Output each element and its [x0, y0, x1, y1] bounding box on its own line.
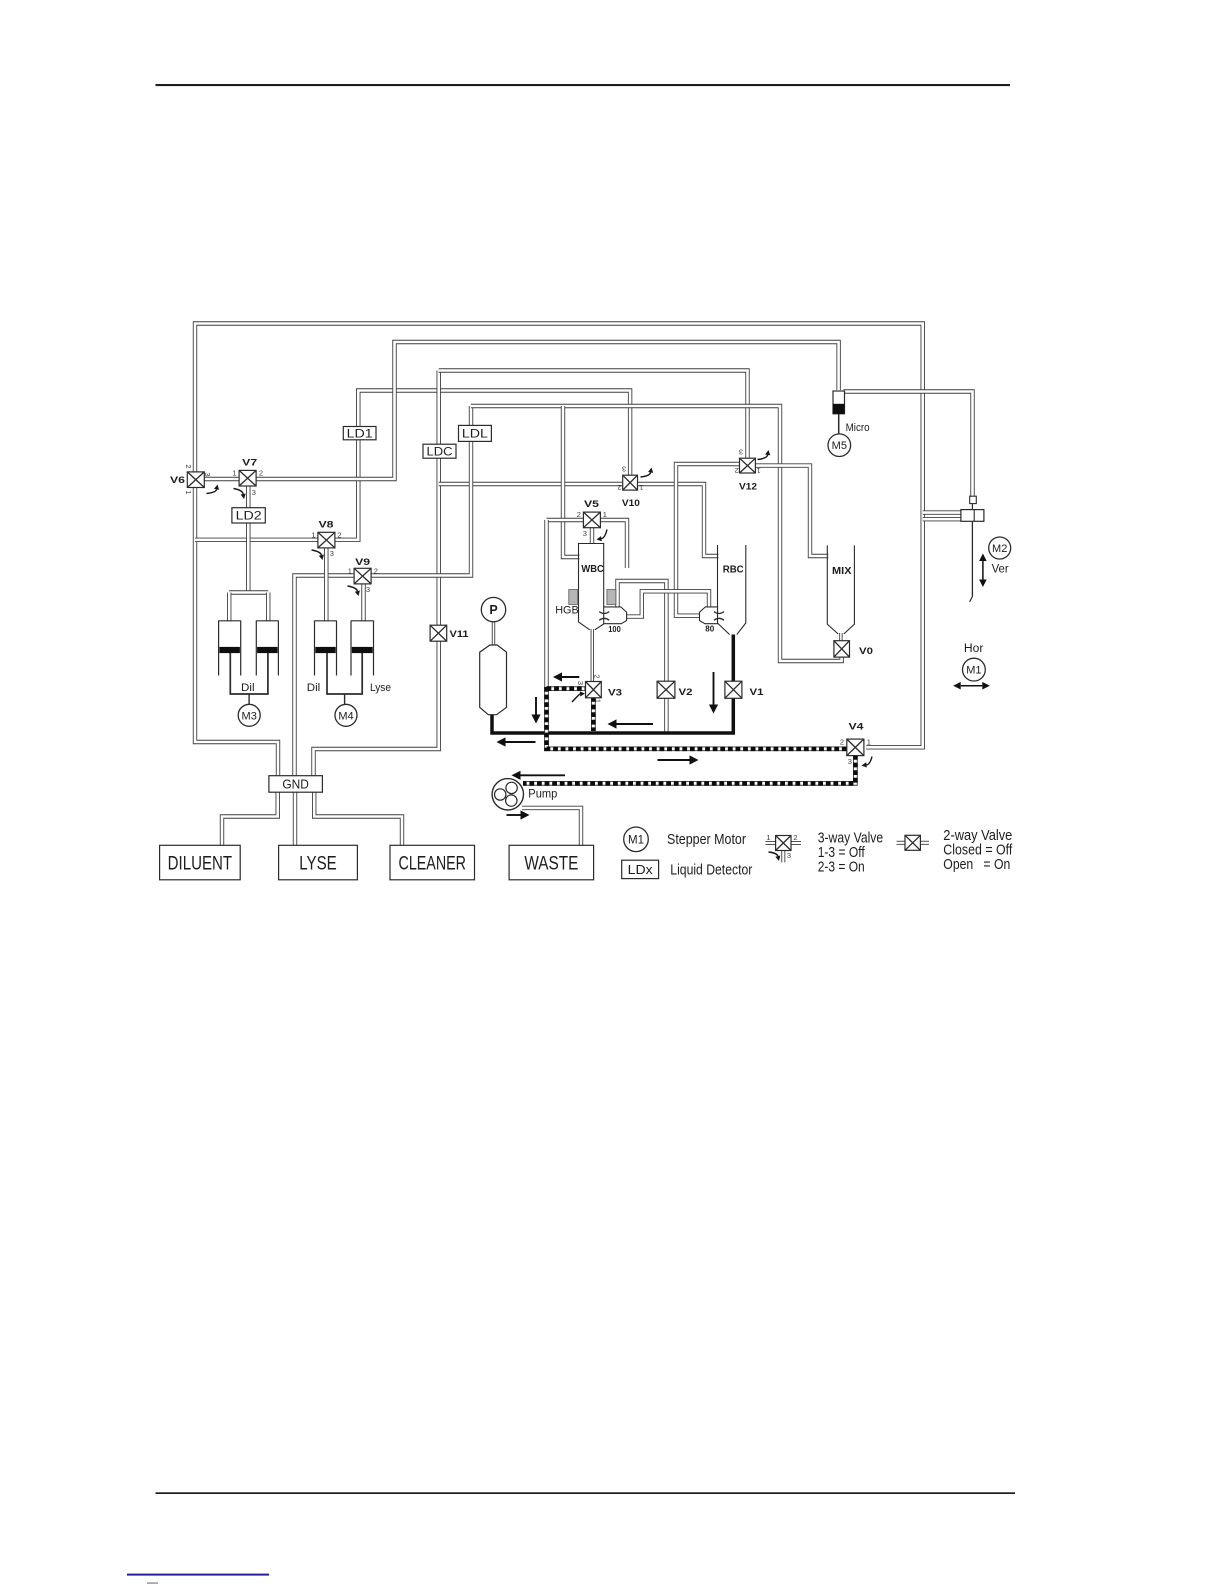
svg-text:DILUENT: DILUENT: [168, 853, 233, 874]
svg-text:Hor: Hor: [964, 643, 984, 655]
svg-text:3: 3: [622, 465, 626, 474]
wire LDL line x471 from y406 down to V9 pin2: [371, 406, 471, 576]
valve V7: [239, 470, 256, 486]
wire rinse block feed lower: [923, 517, 962, 521]
svg-text:1: 1: [639, 483, 643, 492]
MIX chamber: [827, 545, 838, 634]
M3 piston rod left: [229, 653, 231, 694]
svg-text:RBC: RBC: [723, 564, 744, 576]
valve V1 (2-way): [725, 681, 742, 698]
svg-text:1: 1: [348, 566, 352, 575]
svg-text:Dil: Dil: [241, 682, 255, 694]
svg-text:V12: V12: [739, 481, 757, 492]
syringe M4 right cylinder (Lyse): [351, 620, 374, 622]
legend 3-way valve symbol: [766, 841, 777, 845]
V8 actuator arrow: [312, 550, 322, 555]
flow arrow down near V1: [713, 672, 715, 705]
svg-text:V5: V5: [584, 499, 600, 510]
svg-text:3: 3: [203, 472, 212, 476]
svg-text:Open = On: Open = On: [943, 857, 1010, 873]
valve V11 (2-way): [430, 625, 447, 641]
svg-text:2: 2: [840, 738, 844, 747]
page top rule: [156, 84, 1011, 86]
wire V9 pin1 left, down x294.5 to GND: [295, 576, 355, 778]
bottle CLEANER: [390, 845, 475, 880]
svg-text:LDC: LDC: [427, 446, 453, 458]
dashed line x546.5 down and right to V4 pin2: [547, 687, 848, 749]
liquid detector LDL: [459, 425, 492, 441]
V5 actuator arrow: [601, 530, 607, 539]
svg-text:3: 3: [739, 448, 743, 457]
svg-text:80: 80: [705, 624, 714, 634]
svg-text:Micro: Micro: [846, 422, 870, 434]
svg-text:V11: V11: [450, 629, 470, 640]
wire branch x438.7 to V10 pin2: [439, 482, 624, 486]
svg-text:2: 2: [735, 466, 739, 475]
valve V0 (2-way): [834, 641, 850, 657]
svg-text:HGB: HGB: [555, 605, 579, 617]
wire V6 branch to V8 pin1: [195, 538, 319, 542]
V4 actuator arrow: [867, 757, 873, 765]
wire V5 pin2 left to x546.5 corner: [547, 518, 585, 522]
peristaltic pump: [492, 779, 523, 810]
footnote blue rule: [127, 1574, 269, 1576]
liquid detector LD2: [232, 508, 265, 523]
svg-text:M4: M4: [338, 710, 353, 722]
svg-text:3: 3: [583, 529, 587, 538]
svg-text:Liquid Detector: Liquid Detector: [670, 863, 752, 879]
aperture 80 assembly (RBC): [700, 607, 718, 624]
svg-text:1: 1: [232, 468, 236, 477]
svg-text:2: 2: [593, 674, 602, 678]
flow arrow left above pump: [521, 774, 566, 776]
HGB sensor left: [569, 590, 578, 605]
svg-text:3: 3: [848, 757, 852, 766]
svg-text:1: 1: [867, 738, 871, 747]
motor M1 (horizontal drive): [963, 658, 986, 681]
svg-text:M1: M1: [966, 665, 981, 677]
legend LDx box: [622, 860, 659, 878]
wire y406 header to x780 down to V0 bottom: [471, 406, 842, 661]
svg-text:GND: GND: [282, 777, 309, 792]
svg-text:2: 2: [259, 468, 263, 477]
svg-text:M3: M3: [242, 710, 257, 722]
svg-text:Stepper Motor: Stepper Motor: [667, 832, 746, 848]
bottle WASTE: [509, 845, 593, 880]
liquid detector LD1: [343, 427, 376, 440]
svg-text:LD2: LD2: [236, 510, 262, 522]
bottle LYSE: [279, 845, 358, 880]
thick waste line RBC funnel to V1: [732, 635, 736, 683]
svg-text:M5: M5: [832, 440, 847, 452]
legend motor symbol M1: [624, 827, 649, 852]
svg-text:M2: M2: [992, 543, 1007, 555]
svg-text:1: 1: [184, 490, 193, 494]
wire x546.5 down toward V3 dashed tee: [544, 520, 548, 687]
motor M2: [989, 537, 1011, 559]
M4 yoke and stem: [326, 693, 363, 695]
svg-text:LDx: LDx: [628, 862, 654, 877]
svg-text:V4: V4: [849, 722, 865, 733]
svg-text:V9: V9: [355, 557, 370, 568]
syringe M3 right cylinder: [256, 620, 278, 622]
node GND manifold: [269, 776, 323, 793]
svg-text:3: 3: [252, 488, 256, 497]
svg-text:V6: V6: [170, 475, 185, 486]
aperture 100 assembly (WBC): [604, 607, 627, 624]
valve V9: [354, 568, 371, 584]
svg-text:2-3 = On: 2-3 = On: [818, 859, 865, 875]
probe rinse block: [961, 510, 984, 522]
wire V2 bottom to waste header: [664, 698, 668, 733]
pressure chamber: [480, 645, 507, 715]
svg-text:WBC: WBC: [581, 563, 604, 575]
svg-text:V2: V2: [679, 687, 693, 698]
syringe M3 left cylinder (Dil): [219, 620, 241, 622]
flow arrow left above V3: [562, 676, 579, 678]
wire V6 pin3 to V7 pin1: [204, 477, 240, 481]
wire pump outlet to WASTE: [522, 808, 581, 846]
legend 2-way valve symbol: [897, 841, 907, 845]
V3 actuator arrow: [572, 694, 580, 702]
Micro rod: [838, 414, 840, 435]
wire V6 pin1 down / frame bottom-left to GND: [195, 485, 278, 777]
wire outer frame V6-to-V4 (top y323.5, right x922.7): [195, 324, 923, 748]
wire M3 manifold left drop: [227, 593, 231, 622]
dashed V3 bottom to waste header: [591, 697, 596, 731]
Ver arrow: [982, 561, 984, 580]
flow arrow right below pump: [507, 814, 521, 816]
svg-text:LD1: LD1: [347, 428, 373, 440]
wire V12 pin2 left, down x676 to RBC aperture: [676, 464, 741, 616]
svg-text:Ver: Ver: [992, 563, 1009, 575]
svg-text:V8: V8: [319, 519, 334, 530]
svg-text:100: 100: [608, 624, 621, 634]
wire GND to CLEANER: [314, 792, 402, 847]
svg-text:MIX: MIX: [832, 565, 852, 577]
wire WBC funnel to V3 pin2: [591, 629, 594, 683]
wire M3 manifold header: [229, 590, 268, 594]
Hor arrow: [961, 685, 983, 687]
WBC chamber: [579, 543, 604, 545]
RBC chamber: [718, 545, 730, 635]
V7 actuator arrow: [234, 489, 244, 495]
M4 piston rod left: [326, 653, 328, 694]
wire LDC line down (x438.7) through V11 to GND: [437, 371, 441, 627]
probe coupler square: [970, 496, 977, 503]
wire V7 pin3 down through LD2 to M3 manifold: [246, 486, 250, 593]
M3 yoke and stem: [230, 693, 269, 695]
HGB sensor right: [607, 590, 616, 605]
thick waste header V1 to P chamber: [492, 698, 733, 734]
wire rinse block feed upper: [923, 510, 962, 514]
wire y370.5 header LDC-corner to V12 pin3: [439, 371, 748, 460]
motor M4: [335, 704, 357, 726]
wire V12 pin1 right, down x810 to MIX inlet: [755, 466, 829, 556]
wire x563 branch down to WBC side inlet: [563, 406, 580, 557]
svg-text:WASTE: WASTE: [524, 853, 578, 874]
legend 3-way actuator arrow: [769, 852, 778, 856]
valve V4: [847, 739, 864, 756]
wire Micro piston right to probe: [844, 392, 973, 498]
wire WBC aperture out to RBC aperture top: [627, 591, 710, 616]
svg-text:M1: M1: [628, 834, 644, 846]
svg-text:CLEANER: CLEANER: [399, 853, 467, 874]
svg-text:V7: V7: [242, 458, 257, 469]
bottle DILUENT: [160, 845, 241, 880]
svg-text:P: P: [489, 603, 497, 617]
Micro metering piston: [833, 391, 845, 414]
svg-text:1: 1: [603, 510, 607, 519]
flow arrow down left of dashed: [535, 697, 537, 715]
wire GND to LYSE: [293, 792, 297, 847]
motor M5: [828, 434, 851, 457]
sample needle: [971, 504, 973, 510]
svg-text:Dil: Dil: [307, 682, 321, 694]
wire V9 pin3 down to M4 Lyse syringe: [361, 583, 365, 622]
liquid detector LDC: [423, 444, 456, 458]
valve V3: [586, 682, 602, 698]
svg-text:1: 1: [311, 530, 315, 539]
svg-text:V1: V1: [750, 687, 765, 698]
wire V5 pin1 right vent stub: [600, 520, 628, 568]
wire P sensor stem: [492, 621, 495, 646]
svg-text:LDL: LDL: [462, 429, 489, 441]
cut-off text artifact: [147, 1582, 158, 1584]
svg-text:V10: V10: [622, 498, 640, 509]
M3 piston rod right: [267, 653, 269, 694]
wire V10 pin1 right, down x704 to RBC inlet: [637, 484, 719, 556]
svg-text:1: 1: [757, 466, 761, 475]
svg-text:3: 3: [576, 681, 585, 685]
V12 actuator arrow: [758, 455, 768, 460]
wire WBC aperture top loop to V2: [618, 581, 667, 682]
svg-text:V0: V0: [859, 646, 873, 657]
page bottom rule: [156, 1492, 1016, 1494]
svg-text:1: 1: [594, 699, 603, 703]
wire V8 pin3 down to M4 Dil syringe: [324, 547, 328, 622]
valve V12 (rotated): [740, 458, 756, 473]
svg-text:Pump: Pump: [528, 788, 557, 800]
svg-text:Lyse: Lyse: [370, 682, 391, 694]
valve V10 (rotated): [623, 475, 638, 490]
svg-text:V3: V3: [608, 688, 622, 699]
syringe M4 left cylinder (Dil): [315, 620, 337, 622]
flow arrow left below waste header: [506, 741, 536, 743]
wire M3 manifold right drop: [266, 593, 270, 622]
V10 actuator arrow: [641, 472, 651, 477]
dashed V4 pin3 down and left to Pump: [523, 755, 855, 783]
svg-text:2: 2: [617, 483, 621, 492]
svg-text:2: 2: [337, 530, 341, 539]
flow arrow left above waste header: [617, 723, 654, 725]
svg-text:2: 2: [374, 566, 378, 575]
motor M3: [238, 704, 260, 726]
svg-text:2: 2: [577, 510, 581, 519]
V9 actuator arrow: [348, 586, 358, 591]
wire V7 pin2 right, up x394.5, along y342 to Micro piston: [256, 342, 839, 479]
svg-text:1: 1: [766, 833, 770, 842]
valve V8: [318, 532, 335, 548]
svg-text:3: 3: [330, 549, 334, 558]
svg-text:2: 2: [793, 833, 797, 842]
pressure sensor P: [481, 597, 505, 621]
dashed branch to V3 pin3: [547, 686, 587, 691]
wire GND to DILUENT: [222, 792, 278, 847]
svg-text:3: 3: [787, 851, 791, 860]
wire V8 pin2 right, up x358.3, along y390.5, down to V10 pin3: [334, 391, 630, 540]
svg-text:2: 2: [184, 464, 193, 468]
M4 piston rod right: [361, 653, 363, 694]
valve V2 (2-way): [657, 681, 675, 698]
wire V5 pin3 to WBC top: [590, 527, 594, 544]
V6 actuator arrow: [207, 489, 217, 493]
wire MIX funnel stem to V0: [839, 633, 842, 642]
valve V6: [187, 472, 204, 488]
svg-text:LYSE: LYSE: [299, 853, 337, 874]
valve V5: [583, 512, 600, 528]
svg-text:3: 3: [366, 585, 370, 594]
flow arrow right between dashed lines: [658, 759, 690, 761]
